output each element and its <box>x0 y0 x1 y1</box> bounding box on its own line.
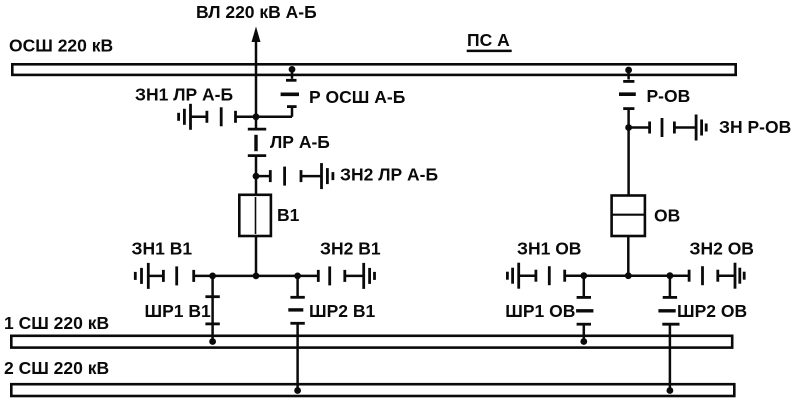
breaker В1 <box>239 195 271 236</box>
ground (ЗН2 В1) <box>364 263 375 289</box>
svg-text:ЗН2 ОВ: ЗН2 ОВ <box>690 239 754 259</box>
node: В1 to header <box>253 273 260 280</box>
disconnector Р-ОВ (open) <box>619 70 636 128</box>
wire from Р ОСШ А-Б to line node <box>256 116 292 119</box>
ground (ЗН2 ЛР А-Б) <box>322 163 333 189</box>
svg-text:ЗН2 ЛР А-Б: ЗН2 ЛР А-Б <box>340 165 438 185</box>
node: header / ШР1 ОВ <box>580 272 587 279</box>
svg-text:ШР2 В1: ШР2 В1 <box>309 301 375 321</box>
bus disconnector ШР1 В1 (closed) <box>205 276 219 342</box>
svg-text:ШР1 В1: ШР1 В1 <box>145 301 211 321</box>
wire ОВ bottom lead <box>627 236 630 277</box>
node: ШР1 В1 on bus 1 <box>209 338 216 345</box>
earthing switch ЗН1 ОВ (open) <box>519 266 565 285</box>
node: ШР1 ОВ on bus 1 <box>580 338 587 345</box>
node A: junction line / ЗН1 ЛР А-Б / Р ОСШ А-Б <box>253 113 260 120</box>
svg-text:ЗН2 В1: ЗН2 В1 <box>320 239 381 259</box>
breaker ОВ (bypass) <box>612 196 645 237</box>
svg-text:Р-ОВ: Р-ОВ <box>647 86 691 106</box>
disconnector ЛР А-Б (closed) <box>248 129 266 195</box>
bus disconnector ШР1 ОВ (open) <box>576 276 593 342</box>
svg-text:В1: В1 <box>277 205 300 225</box>
ground (ЗН1 В1) <box>135 263 148 289</box>
node B: junction line / ЗН2 ЛР А-Б <box>253 173 260 180</box>
svg-text:ШР2 ОВ: ШР2 ОВ <box>677 301 747 321</box>
node: header / ШР2 ОВ <box>667 272 674 279</box>
ground (ЗН Р-ОВ) <box>696 115 706 141</box>
wire header below ОВ <box>565 274 689 277</box>
earthing switch ЗН2 ОВ (open) <box>689 266 735 285</box>
wire В1 bottom lead <box>255 236 258 277</box>
ground (ЗН1 ЛР А-Б) <box>179 104 191 130</box>
svg-text:1 СШ 220 кВ: 1 СШ 220 кВ <box>4 313 109 333</box>
svg-text:ВЛ 220 кВ А-Б: ВЛ 220 кВ А-Б <box>196 2 317 22</box>
node: junction dot on ОСШ bus for Р-ОВ <box>625 67 632 74</box>
svg-text:ЗН1 ОВ: ЗН1 ОВ <box>517 239 581 259</box>
disconnector Р ОСШ А-Б (open) <box>281 69 299 116</box>
svg-text:ЗН1 ЛР А-Б: ЗН1 ЛР А-Б <box>135 85 233 105</box>
svg-text:ЗН Р-ОВ: ЗН Р-ОВ <box>719 117 791 137</box>
node: ОВ to header <box>625 272 632 279</box>
earthing switch ЗН Р-ОВ (open) <box>629 118 697 137</box>
earthing switch ЗН2 В1 (open) <box>318 266 363 285</box>
svg-text:ОСШ 220 кВ: ОСШ 220 кВ <box>9 36 113 56</box>
node: header / ШР2 В1 <box>294 273 301 280</box>
ground (ЗН1 ОВ) <box>507 263 518 289</box>
bus disconnector ШР2 В1 (open) <box>288 276 305 391</box>
svg-text:ЗН1 В1: ЗН1 В1 <box>132 239 193 259</box>
svg-text:ШР1 ОВ: ШР1 ОВ <box>505 301 575 321</box>
wire Р-ОВ to ОВ <box>627 128 630 196</box>
svg-text:ЛР А-Б: ЛР А-Б <box>270 132 330 152</box>
svg-text:Р ОСШ А-Б: Р ОСШ А-Б <box>309 87 405 107</box>
node C: junction line / ЗН Р-ОВ <box>625 124 632 131</box>
node: ШР2 ОВ on bus 2 <box>667 387 674 394</box>
svg-text:ПС А: ПС А <box>467 30 510 50</box>
earthing switch ЗН1 ЛР А-Б (open) <box>191 107 257 126</box>
line arrow ВЛ 220 кВ А-Б <box>252 27 261 130</box>
svg-text:2 СШ 220 кВ: 2 СШ 220 кВ <box>4 358 109 378</box>
ground (ЗН2 ОВ) <box>735 263 744 289</box>
svg-text:ОВ: ОВ <box>654 206 680 226</box>
wire header below В1 <box>194 275 319 278</box>
bus disconnector ШР2 ОВ (open) <box>658 276 679 391</box>
earthing switch ЗН2 ЛР А-Б (open) <box>256 167 322 186</box>
bus ОСШ 220 кВ (bypass busbar) <box>12 64 735 75</box>
bus 2 СШ 220 кВ <box>11 384 734 396</box>
label ПС А (underlined) <box>467 30 512 51</box>
bus 1 СШ 220 кВ <box>11 336 732 348</box>
earthing switch ЗН1 В1 (open) <box>148 266 193 285</box>
node: junction dot on ОСШ bus for Р ОСШ А-Б <box>289 66 296 73</box>
node: ШР2 В1 on bus 2 <box>294 387 301 394</box>
node: header / ШР1 В1 <box>209 273 216 280</box>
